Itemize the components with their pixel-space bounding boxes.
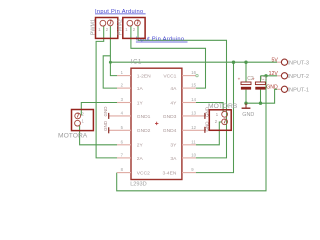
node C2 top junction <box>244 61 247 64</box>
node GND rail C1 <box>259 102 262 105</box>
svg-text:GND4: GND4 <box>163 128 177 134</box>
svg-text:15: 15 <box>191 83 196 88</box>
svg-text:4A: 4A <box>170 86 177 92</box>
svg-text:GND3: GND3 <box>163 114 177 120</box>
svg-text:16: 16 <box>191 70 196 75</box>
wire capacitor C1 branch <box>260 76 262 82</box>
svg-text:PWM1: PWM1 <box>90 19 96 35</box>
pin numbers left <box>121 70 124 172</box>
wire PWM1.2 to 1-2EN <box>110 26 117 76</box>
op-amp IC1 L293D box <box>131 68 182 179</box>
node 5V rail start <box>109 61 112 64</box>
svg-text:MOTORA: MOTORA <box>58 132 88 139</box>
pin INPUT-1 <box>277 86 309 93</box>
svg-text:GND: GND <box>103 106 108 117</box>
pin INPUT-3 <box>277 59 309 66</box>
svg-text:4Y: 4Y <box>170 100 177 106</box>
svg-text:GND: GND <box>103 120 108 131</box>
label Input Pin Arduino (second) <box>136 37 188 43</box>
GND3 end bar <box>204 113 205 119</box>
svg-text:INPUT-1: INPUT-1 <box>288 87 309 93</box>
GND4 end bar <box>204 127 205 133</box>
wire 5V rail <box>110 61 277 63</box>
pin INPUT-2 <box>277 73 309 80</box>
label Input Pin Arduino (top) <box>95 9 146 15</box>
wire 3Y to MOTORB pin2 <box>196 122 222 145</box>
wire 1Y to MOTORA pin2 <box>81 103 117 116</box>
svg-text:GND1: GND1 <box>137 114 151 120</box>
svg-text:C1: C1 <box>261 76 268 82</box>
svg-text:VCC1: VCC1 <box>163 74 176 80</box>
svg-text:14: 14 <box>191 97 196 102</box>
svg-text:+: + <box>238 77 241 82</box>
capacitor C2 <box>238 76 254 90</box>
svg-text:INPUT-3: INPUT-3 <box>288 60 309 66</box>
svg-text:1Y: 1Y <box>137 100 144 106</box>
connector PWM2 <box>123 18 145 39</box>
GND2 end bar <box>108 127 109 133</box>
svg-text:5V: 5V <box>271 57 278 63</box>
connector PWM1 <box>96 18 118 39</box>
ground symbol <box>242 103 255 118</box>
svg-text:1A: 1A <box>137 86 144 92</box>
wire VCC2 to 12V loop <box>117 76 266 191</box>
svg-text:12: 12 <box>191 125 196 130</box>
wire 2Y to MOTORA pin1 <box>80 126 117 145</box>
svg-text:2A: 2A <box>137 156 144 162</box>
svg-text:3A: 3A <box>170 156 177 162</box>
pin stubs left <box>109 76 131 173</box>
wire PWM1.1 descender <box>96 26 117 158</box>
connector MOTORA <box>72 110 94 131</box>
svg-text:Input Pin Arduino: Input Pin Arduino <box>136 37 184 43</box>
pin names right column <box>163 74 178 177</box>
svg-text:+: + <box>252 77 255 82</box>
svg-text:11: 11 <box>191 139 196 144</box>
svg-text:1-2EN: 1-2EN <box>137 74 151 80</box>
svg-text:12V: 12V <box>269 71 279 77</box>
wire jog to 1A <box>103 56 117 88</box>
wire PWM2.2 to 3A <box>138 26 227 158</box>
wire GND rail <box>246 89 277 103</box>
wire 3-4EN to 5V <box>196 62 234 172</box>
svg-text:GND: GND <box>242 112 254 118</box>
svg-text:INPUT-2: INPUT-2 <box>288 74 309 80</box>
capacitor C1 <box>252 76 267 90</box>
svg-text:GND2: GND2 <box>137 128 151 134</box>
node 12V junction <box>264 74 267 77</box>
svg-text:GND: GND <box>266 85 278 91</box>
IC center cross <box>155 122 158 125</box>
pin 16 end dot <box>196 74 198 76</box>
svg-text:L293D: L293D <box>130 181 146 187</box>
wire 4Y to MOTORB pin1 <box>196 103 223 112</box>
node 3-4EN junction <box>232 61 235 64</box>
wire PWM2.1 to 4A <box>131 26 206 88</box>
svg-text:IC1: IC1 <box>131 60 142 66</box>
pin names left column <box>137 74 151 177</box>
GND1 end bar <box>108 113 109 119</box>
svg-text:MOTORB: MOTORB <box>208 103 238 110</box>
pin numbers right <box>191 70 196 172</box>
wire 12V <box>261 75 278 77</box>
svg-text:2Y: 2Y <box>137 143 144 149</box>
svg-text:3-4EN: 3-4EN <box>163 171 177 177</box>
node GND rail C2 <box>244 102 247 105</box>
svg-text:13: 13 <box>191 111 196 116</box>
pin stubs right <box>182 76 205 173</box>
svg-text:10: 10 <box>191 153 196 158</box>
svg-text:VCC2: VCC2 <box>137 171 150 177</box>
svg-text:PWM2: PWM2 <box>118 19 124 35</box>
connector MOTORB <box>209 110 231 131</box>
svg-text:3Y: 3Y <box>170 143 177 149</box>
wire capacitor C2 branch <box>245 62 247 81</box>
